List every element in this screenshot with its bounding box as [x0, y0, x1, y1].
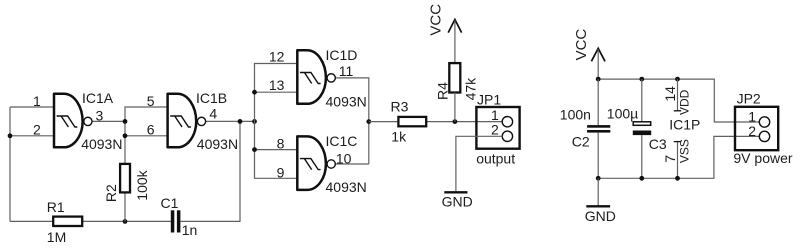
resistor R3 — [398, 117, 426, 126]
node junction pin6 branch — [123, 133, 128, 138]
wire IC1D output — [335, 78, 369, 164]
svg-text:47k: 47k — [462, 77, 478, 101]
nand gate IC1D body — [297, 50, 326, 104]
wire pin1 IC1A — [10, 106, 54, 108]
tick pin7 — [674, 141, 681, 143]
resistor R2 — [120, 164, 130, 193]
node junction gnd C2 — [596, 176, 601, 181]
ground bar left — [444, 191, 467, 193]
svg-text:1: 1 — [748, 108, 756, 124]
capacitor C3 minus plate — [633, 131, 651, 136]
svg-text:output: output — [476, 150, 515, 166]
tick pin14 — [674, 110, 681, 112]
connector JP2 box — [735, 107, 778, 150]
svg-text:100n: 100n — [560, 106, 591, 122]
svg-text:14: 14 — [662, 86, 678, 102]
node junction bus pin14 — [675, 77, 680, 82]
wire vertical node x=125 (pin5 to R2 top) — [125, 107, 168, 164]
svg-text:100k: 100k — [134, 169, 150, 200]
wire bottom feedback R1 left — [10, 220, 53, 222]
node junction input/pin2 — [8, 133, 13, 138]
svg-text:4093N: 4093N — [326, 94, 367, 110]
wire bottom ground bus — [598, 136, 759, 178]
wire C2 bottom — [597, 133, 599, 179]
node junction feedback x=240 — [238, 119, 243, 124]
wire R3 input — [369, 121, 398, 123]
node junction bus C2 — [596, 77, 601, 82]
nand gate IC1A body — [54, 94, 83, 148]
node junction R4 bottom — [453, 119, 458, 124]
capacitor C1 — [171, 210, 181, 232]
svg-text:2: 2 — [33, 122, 41, 138]
vcc arrow left — [448, 20, 461, 33]
pin circle JP2-2 — [759, 131, 769, 141]
svg-text:R1: R1 — [47, 199, 65, 215]
svg-text:4093N: 4093N — [197, 136, 238, 152]
wire R2 bottom to feedback node — [124, 192, 126, 221]
svg-text:1k: 1k — [391, 128, 407, 144]
wire VCC drop right — [597, 49, 599, 79]
svg-text:IC1B: IC1B — [196, 90, 227, 106]
wire R1 right to C1 — [82, 220, 171, 222]
svg-text:2: 2 — [748, 123, 756, 139]
resistor R4 — [449, 63, 460, 92]
svg-text:R4: R4 — [434, 82, 450, 100]
node junction gate outputs to R3 — [366, 119, 371, 124]
svg-text:VSS: VSS — [678, 139, 692, 163]
svg-text:1: 1 — [33, 93, 41, 109]
wire pin2 IC1A — [10, 135, 54, 137]
svg-text:C1: C1 — [161, 195, 179, 211]
svg-text:4: 4 — [209, 106, 217, 122]
resistor R1 — [53, 217, 82, 226]
svg-text:1n: 1n — [182, 222, 198, 238]
wire C3 top — [641, 79, 643, 122]
svg-text:GND: GND — [585, 208, 616, 224]
svg-text:10: 10 — [336, 151, 352, 167]
svg-text:4093N: 4093N — [326, 179, 367, 195]
svg-text:6: 6 — [147, 122, 155, 138]
node junction IC1A out — [123, 119, 128, 124]
wire GND drop right — [597, 178, 599, 206]
node junction pin8 — [252, 147, 257, 152]
svg-text:3: 3 — [96, 107, 104, 123]
nand gate IC1C body — [297, 136, 326, 190]
svg-text:2: 2 — [491, 122, 499, 138]
node junction R1-R2-C1 — [123, 219, 128, 224]
wire left input bus vertical x=10 — [9, 107, 11, 221]
node junction x=254.5 on output — [252, 119, 257, 124]
svg-text:11: 11 — [339, 63, 354, 79]
svg-text:12: 12 — [269, 49, 285, 65]
wire top power bus — [598, 79, 759, 122]
wire IC1A output — [92, 120, 125, 122]
svg-text:VCC: VCC — [428, 4, 445, 36]
wire R4 bottom — [454, 93, 456, 122]
ground bar right — [586, 205, 610, 207]
wire IC1P pin14 — [677, 79, 679, 111]
wire vertical node x=254.5 (pin12 to pin9) — [255, 64, 298, 179]
connector JP1 box — [476, 107, 519, 149]
svg-text:9: 9 — [277, 164, 285, 180]
svg-text:GND: GND — [442, 194, 473, 210]
nand gate IC1B body — [168, 94, 197, 148]
wire JP1 pin2 to GND — [456, 136, 503, 191]
svg-text:R2: R2 — [103, 184, 119, 202]
svg-text:JP1: JP1 — [477, 91, 501, 107]
pin circle JP2-1 — [759, 117, 769, 127]
svg-text:IC1D: IC1D — [326, 47, 358, 63]
pin circle JP1-1 — [502, 117, 512, 127]
capacitor C2 — [587, 125, 610, 133]
wire C1 right to corner x=240 — [181, 121, 240, 221]
node junction pin13 — [252, 90, 257, 95]
svg-text:9V power: 9V power — [733, 150, 792, 166]
svg-text:JP2: JP2 — [737, 91, 761, 107]
wire C2 top — [597, 79, 599, 125]
node junction gnd C3 — [639, 176, 644, 181]
svg-text:VDD: VDD — [678, 89, 692, 115]
wire R3 to JP1 pin 1 — [426, 121, 502, 123]
svg-text:5: 5 — [147, 93, 155, 109]
node junction gnd pin7 — [675, 176, 680, 181]
vcc arrow right — [591, 48, 605, 61]
svg-text:C2: C2 — [572, 134, 590, 150]
svg-text:1M: 1M — [47, 229, 66, 244]
svg-text:8: 8 — [277, 136, 285, 152]
svg-text:C3: C3 — [649, 136, 667, 152]
pin circle JP1-2 — [502, 131, 512, 141]
wire pin13 IC1D — [255, 91, 298, 93]
svg-text:4093N: 4093N — [81, 136, 122, 152]
svg-text:IC1A: IC1A — [82, 90, 114, 106]
wire IC1P pin7 — [677, 142, 679, 179]
wire pin6 IC1B — [125, 135, 168, 137]
capacitor C3 plus plate — [633, 122, 651, 126]
svg-text:IC1P: IC1P — [669, 117, 700, 133]
svg-text:1: 1 — [491, 107, 499, 123]
wire IC1C output — [335, 163, 369, 165]
node junction bus C3 — [639, 77, 644, 82]
wire IC1B output — [206, 120, 255, 122]
svg-text:13: 13 — [269, 77, 285, 93]
wire C3 bottom — [641, 135, 643, 178]
svg-text:R3: R3 — [391, 99, 409, 115]
svg-text:IC1C: IC1C — [326, 133, 358, 149]
svg-text:VCC: VCC — [573, 29, 590, 61]
wire VCC to R4 — [454, 20, 456, 63]
svg-text:100µ: 100µ — [607, 105, 638, 121]
wire pin8 IC1C — [255, 149, 298, 151]
svg-text:7: 7 — [662, 155, 678, 163]
